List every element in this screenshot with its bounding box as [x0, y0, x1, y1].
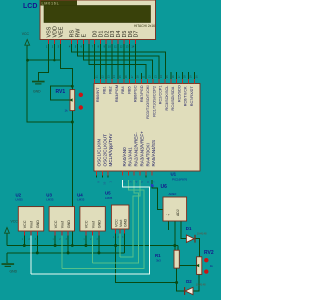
svg-text:RC2/CCP1: RC2/CCP1 [159, 85, 163, 104]
svg-text:MCLR/Vpp/THV: MCLR/Vpp/THV [108, 133, 113, 167]
svg-text:RV1: RV1 [56, 89, 66, 95]
svg-text:3k3: 3k3 [156, 259, 161, 263]
svg-text:LM35: LM35 [77, 198, 85, 202]
svg-text:E: E [82, 34, 88, 38]
svg-text:D7: D7 [134, 31, 140, 38]
svg-text:RC1/T1OSI/CCP2: RC1/T1OSI/CCP2 [152, 86, 156, 117]
svg-text:RA4/T0CKI: RA4/T0CKI [145, 143, 150, 166]
svg-text:D2: D2 [186, 279, 192, 284]
svg-text:VEE: VEE [59, 26, 65, 37]
svg-text:HITACHI 2x16: HITACHI 2x16 [134, 24, 155, 28]
svg-text:1k: 1k [210, 264, 214, 268]
svg-text:RB7/PGD: RB7/PGD [140, 85, 144, 102]
svg-text:RB1: RB1 [102, 86, 106, 93]
svg-text:RV2: RV2 [204, 250, 214, 256]
svg-text:GND: GND [36, 220, 40, 229]
svg-text:RB0/INT: RB0/INT [96, 87, 100, 102]
svg-text:R1: R1 [155, 253, 161, 258]
svg-text:GND: GND [123, 218, 127, 227]
svg-text:RB2: RB2 [109, 86, 113, 93]
svg-text:RA5/AN4/SS: RA5/AN4/SS [151, 140, 156, 167]
svg-text:RC6/TX/CK: RC6/TX/CK [184, 86, 188, 106]
svg-text:RC0/T1OSO/T1CKI: RC0/T1OSO/T1CKI [146, 85, 150, 118]
svg-text:- +: - + [166, 213, 170, 217]
svg-text:VCC: VCC [85, 220, 89, 228]
svg-text:U5: U5 [105, 191, 111, 196]
svg-text:RB4: RB4 [121, 86, 125, 93]
svg-text:Vout: Vout [91, 221, 95, 228]
svg-text:GND: GND [98, 220, 102, 229]
svg-text:VCC: VCC [54, 220, 58, 228]
svg-text:U6: U6 [161, 184, 168, 190]
svg-text:VCC: VCC [114, 219, 118, 227]
svg-text:RC5/SDO: RC5/SDO [177, 85, 181, 102]
svg-text:Vout: Vout [30, 221, 34, 228]
svg-text:U1: U1 [171, 171, 177, 176]
svg-text:RA0/AN0: RA0/AN0 [122, 147, 127, 167]
svg-text:RC3/SCK/SCL: RC3/SCK/SCL [165, 86, 169, 111]
svg-text:OSC1/CLKIN: OSC1/CLKIN [96, 139, 101, 166]
svg-text:LCD: LCD [23, 3, 37, 10]
svg-text:RA2/AN2/VREF-: RA2/AN2/VREF- [134, 132, 139, 167]
svg-text:GND: GND [67, 220, 71, 229]
svg-text:RB3/PGM: RB3/PGM [115, 85, 119, 102]
svg-text:RA3/AN3/VREF+: RA3/AN3/VREF+ [139, 131, 144, 167]
svg-text:LM35: LM35 [105, 196, 113, 200]
svg-text:VCC: VCC [22, 32, 30, 36]
svg-text:VCC: VCC [23, 220, 27, 228]
svg-text:PIC16F876: PIC16F876 [172, 177, 188, 181]
svg-text:ADJ: ADJ [176, 209, 180, 216]
svg-text:Vout: Vout [119, 220, 123, 227]
svg-text:Vout: Vout [61, 221, 65, 228]
svg-text:GND: GND [33, 89, 41, 93]
svg-text:OSC2/CLKOUT: OSC2/CLKOUT [102, 134, 107, 167]
svg-text:GND: GND [10, 270, 18, 274]
svg-text:LM016L: LM016L [42, 2, 60, 6]
svg-text:RC7/RX/DT: RC7/RX/DT [190, 86, 194, 107]
svg-text:RC4/SDI/SDA: RC4/SDI/SDA [171, 86, 175, 110]
svg-text:RB6/PGC: RB6/PGC [134, 85, 138, 102]
svg-text:D1: D1 [186, 226, 192, 231]
svg-text:AREF: AREF [169, 192, 177, 196]
svg-text:RA1/AN1: RA1/AN1 [128, 147, 133, 167]
svg-text:1k: 1k [65, 108, 69, 112]
svg-text:1N4148: 1N4148 [196, 283, 206, 287]
svg-text:1N4148: 1N4148 [197, 231, 207, 235]
svg-text:LM35: LM35 [16, 198, 24, 202]
svg-text:VCC: VCC [11, 220, 19, 224]
svg-text:RB5: RB5 [127, 86, 131, 93]
svg-text:LM35: LM35 [46, 198, 54, 202]
